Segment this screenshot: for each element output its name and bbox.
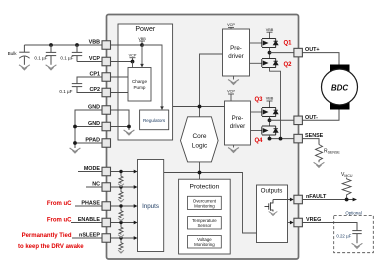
- motor terminal top: [330, 65, 350, 74]
- wire VCP rail to pre-drivers: [173, 54, 225, 117]
- wire Q4 source to sense: [269, 135, 271, 139]
- svg-text:Q3: Q3: [254, 97, 263, 103]
- pin GND2: [102, 122, 111, 131]
- capacitor C3 0.1uF (VBB-VCP): [72, 45, 82, 62]
- wire VBB pin to power: [111, 44, 143, 46]
- svg-text:Q1: Q1: [284, 41, 293, 47]
- wire Q3 source: [269, 117, 271, 127]
- capacitor 0.22uF: [352, 231, 361, 244]
- svg-text:SENSE: SENSE: [305, 133, 324, 139]
- wire ENABLE: [111, 222, 135, 224]
- svg-text:Logic: Logic: [192, 143, 208, 150]
- node Q2 source join: [279, 137, 283, 141]
- svg-text:OUT-: OUT-: [305, 115, 318, 121]
- node nFAULT pullup: [345, 198, 349, 202]
- svg-text:Pre-: Pre-: [230, 45, 242, 52]
- resistor pulldown ENABLE: [119, 223, 123, 235]
- svg-text:Inputs: Inputs: [142, 203, 159, 210]
- svg-text:CP2: CP2: [90, 87, 101, 93]
- resistor pulldown MODE: [119, 172, 123, 184]
- svg-text:Monitoring: Monitoring: [194, 203, 215, 208]
- wire OUT- to motor: [302, 109, 339, 120]
- svg-text:Outputs: Outputs: [261, 188, 283, 195]
- arrows into Inputs: [134, 170, 138, 174]
- svg-text:Q4: Q4: [254, 138, 263, 144]
- wire CP2: [111, 92, 129, 94]
- wire VCP: [77, 61, 102, 63]
- wire VCP to charge pump: [132, 62, 134, 68]
- svg-text:Regulators: Regulators: [143, 118, 166, 123]
- svg-text:Pre-: Pre-: [232, 115, 244, 122]
- op-amp Core Logic hexagon: [181, 117, 219, 162]
- wire VBB to charge pump (arrow): [141, 45, 143, 65]
- pin nSLEEP: [102, 234, 111, 243]
- transistor Q2: [262, 59, 278, 68]
- node GND internal: [127, 125, 131, 129]
- svg-text:to keep the DRV awake: to keep the DRV awake: [18, 244, 84, 250]
- wire gate Q4: [251, 130, 262, 132]
- wire stub nSLEEP: [72, 237, 102, 239]
- svg-text:VREG: VREG: [306, 217, 321, 223]
- svg-text:driver: driver: [228, 53, 243, 60]
- node pulldowns: [119, 170, 122, 173]
- node gnd1: [73, 125, 77, 129]
- block Regulators: [140, 110, 169, 130]
- node Q4 source: [268, 137, 272, 141]
- capacitor C4 0.1uF (CP1-CP2): [72, 77, 102, 93]
- resistor pulldown PHASE: [119, 206, 123, 218]
- capacitor C2 0.1uF: [46, 45, 56, 65]
- wire VCP pin to power: [111, 61, 133, 63]
- ground 0.22uF: [352, 243, 363, 248]
- node VCP rail: [198, 105, 202, 109]
- wire stub PHASE: [75, 205, 102, 207]
- svg-text:Pump: Pump: [133, 85, 145, 90]
- svg-text:MODE: MODE: [84, 166, 101, 172]
- svg-text:Permanantly Tied: Permanantly Tied: [22, 233, 72, 239]
- node VBB internal: [140, 43, 144, 47]
- ground fault FET: [269, 212, 278, 216]
- node VBB-C2: [75, 43, 79, 47]
- wire logic net: [164, 162, 257, 233]
- svg-text:PHASE: PHASE: [81, 201, 100, 207]
- ground pulldowns: [118, 184, 124, 187]
- wire gate Q2: [250, 62, 262, 64]
- resistor pull-up nFAULT: [342, 178, 351, 200]
- wire stub MODE: [78, 171, 102, 173]
- svg-text:0.1 µF: 0.1 µF: [34, 55, 47, 60]
- svg-text:0.1 µF: 0.1 µF: [60, 55, 73, 60]
- node half-bridge 2: [268, 118, 272, 122]
- block Outputs: [257, 185, 288, 243]
- svg-text:VBB: VBB: [266, 97, 274, 101]
- resistor pulldown nSLEEP: [119, 238, 123, 250]
- wire gate Q3: [251, 111, 262, 113]
- wire SENSE to Rsense: [302, 139, 319, 145]
- svg-text:0.22 µF: 0.22 µF: [336, 234, 351, 239]
- pin CP2: [102, 88, 111, 97]
- resistor pulldown NC: [119, 187, 123, 199]
- svg-text:nSLEEP: nSLEEP: [79, 233, 100, 239]
- ground left rail: [70, 148, 81, 153]
- wire nFAULT internal (arrow): [273, 199, 291, 201]
- wire CP1: [111, 76, 129, 78]
- block Voltage Monitoring: [188, 236, 222, 249]
- node logic net: [198, 171, 202, 175]
- pin PHASE: [102, 202, 111, 211]
- ground C2: [46, 65, 57, 70]
- block Pre-driver U1: [223, 29, 250, 76]
- ground predriver1: [233, 76, 235, 80]
- pin OUT+: [294, 48, 303, 57]
- svg-text:Core: Core: [192, 133, 206, 140]
- node gnd2: [73, 141, 77, 145]
- pin VREG: [294, 218, 303, 227]
- node VBB-C1: [49, 43, 53, 47]
- block Inputs: [138, 160, 164, 252]
- svg-text:Q2: Q2: [284, 62, 293, 68]
- block Protection: [179, 179, 231, 254]
- pin MODE: [102, 167, 111, 176]
- block Temperature Sensor: [188, 217, 222, 229]
- pin GND1: [102, 106, 111, 115]
- svg-text:ENABLE: ENABLE: [78, 217, 101, 223]
- transistor Q4: [262, 126, 278, 135]
- svg-text:PPAD: PPAD: [85, 138, 100, 144]
- wire PHASE: [111, 205, 135, 207]
- transistor Q1: [262, 39, 278, 48]
- pin PPAD: [102, 139, 111, 148]
- pin ENABLE: [102, 218, 111, 227]
- wire OUT+ internal: [270, 52, 295, 54]
- svg-text:driver: driver: [230, 123, 245, 130]
- svg-text:BDC: BDC: [331, 84, 349, 93]
- svg-text:VCP: VCP: [89, 56, 100, 62]
- transistor fault FET: [265, 200, 274, 212]
- svg-text:VCP: VCP: [227, 90, 235, 94]
- svg-text:OUT+: OUT+: [305, 47, 320, 53]
- wire Q1 source to OUT+: [269, 48, 271, 59]
- svg-text:VBB: VBB: [89, 40, 100, 46]
- ground RSENSE: [314, 162, 325, 167]
- svg-text:NC: NC: [92, 182, 100, 188]
- wire Q2 source to sense: [270, 68, 281, 139]
- wire stub ENABLE: [71, 222, 102, 224]
- block Charge Pump: [128, 68, 151, 102]
- wire stub NC: [86, 186, 102, 188]
- svg-text:VBB: VBB: [138, 37, 146, 41]
- svg-text:0.1 µF: 0.1 µF: [59, 89, 72, 94]
- motor terminal bottom: [330, 101, 350, 110]
- wire SENSE internal: [270, 138, 295, 140]
- svg-text:Power: Power: [135, 26, 156, 33]
- wire GND rail left: [75, 110, 102, 148]
- pin SENSE: [294, 134, 303, 143]
- wire nSLEEP: [111, 237, 135, 239]
- wire VBB to regulators (arrow): [142, 45, 162, 107]
- wire gate Q1: [250, 42, 262, 44]
- pin VCP: [102, 57, 111, 66]
- wire NC: [111, 186, 135, 188]
- svg-text:From uC: From uC: [47, 217, 72, 223]
- pin nFAULT: [294, 195, 303, 204]
- svg-text:Charge: Charge: [132, 79, 148, 84]
- input rows: wires, arrows, pulldown resistors: [111, 172, 135, 251]
- wire OUT+ to motor: [302, 53, 339, 65]
- pin CP1: [102, 73, 111, 82]
- wire VREG external: [302, 223, 357, 231]
- svg-text:VCP: VCP: [227, 23, 235, 27]
- block Pre-driver U2: [225, 101, 251, 145]
- svg-text:Bulk: Bulk: [8, 51, 18, 56]
- node half-bridge 1: [268, 51, 272, 55]
- svg-text:GND: GND: [88, 121, 100, 127]
- ground internal power: [124, 130, 135, 135]
- svg-text:VCP: VCP: [129, 54, 137, 58]
- ground bulk: [19, 65, 30, 70]
- motor BDC: [322, 69, 358, 105]
- node VCP internal: [131, 60, 135, 64]
- svg-text:VBB: VBB: [266, 28, 274, 32]
- svg-text:Optional: Optional: [345, 211, 361, 216]
- svg-text:nFAULT: nFAULT: [306, 194, 327, 200]
- svg-text:CP1: CP1: [90, 72, 101, 78]
- wire GND internal: [111, 110, 130, 130]
- pin NC: [102, 183, 111, 192]
- wire nFAULT external: [302, 199, 353, 201]
- pin VBB: [102, 41, 111, 50]
- resistor RSENSE: [316, 145, 323, 163]
- svg-text:GND: GND: [88, 105, 100, 111]
- pin OUT-: [294, 116, 303, 125]
- transistor Q3: [262, 108, 278, 117]
- svg-text:Sensor: Sensor: [197, 223, 211, 228]
- arrow nFAULT end: [353, 198, 357, 202]
- wire OUT- internal: [270, 119, 295, 121]
- optional dashed box: [334, 216, 374, 253]
- block Overcurrent Monitoring: [188, 196, 222, 209]
- ground predriver2: [233, 145, 235, 148]
- svg-text:From uC: From uC: [47, 201, 72, 207]
- svg-text:Protection: Protection: [190, 184, 220, 191]
- wire VREG internal (arrow): [288, 222, 292, 224]
- block Power: [118, 24, 173, 140]
- capacitor Bulk: [19, 45, 29, 65]
- wire VBB rail outside: [24, 44, 102, 46]
- chip body DRV: [107, 15, 299, 260]
- wire MODE: [111, 171, 135, 173]
- svg-text:Monitoring: Monitoring: [194, 242, 215, 247]
